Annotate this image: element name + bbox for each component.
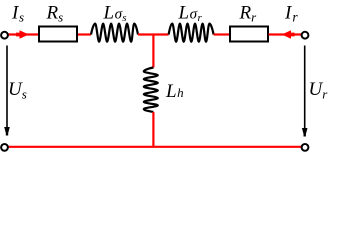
wire — [269, 33, 301, 35]
svg-text:Us: Us — [8, 79, 27, 102]
wire — [8, 33, 38, 35]
inductor Lsigma_r — [169, 24, 214, 42]
svg-text:Is: Is — [11, 3, 24, 25]
wire — [78, 33, 91, 35]
inductor Lh — [144, 68, 158, 113]
inductor Lsigma_s — [91, 24, 138, 42]
wire (top rail through node) — [138, 33, 169, 35]
resistor Rr — [230, 27, 268, 42]
resistor Rs — [39, 27, 77, 42]
wire (Lh bottom lead) — [152, 112, 154, 147]
svg-text:Rs: Rs — [46, 3, 64, 25]
current arrow Ir — [282, 30, 295, 38]
wire (bottom rail) — [8, 146, 301, 148]
terminal: stator plus (top left) — [1, 32, 8, 39]
terminal: rotor plus (top right) — [302, 32, 309, 39]
wire (Lh top lead) — [152, 35, 154, 68]
svg-text:Lh: Lh — [165, 81, 184, 102]
terminal: stator minus (bottom left) — [1, 144, 8, 151]
current arrow Is — [16, 30, 29, 38]
svg-text:Ir: Ir — [284, 3, 298, 25]
voltage arrow Us — [6, 46, 8, 129]
svg-text:Rr: Rr — [239, 3, 258, 25]
svg-text:Lσr: Lσr — [178, 3, 203, 25]
svg-text:Lσs: Lσs — [103, 3, 127, 25]
terminal: rotor minus (bottom right) — [302, 144, 309, 151]
voltage arrow Ur — [304, 46, 306, 130]
svg-text:Ur: Ur — [309, 79, 329, 102]
wire — [214, 33, 229, 35]
